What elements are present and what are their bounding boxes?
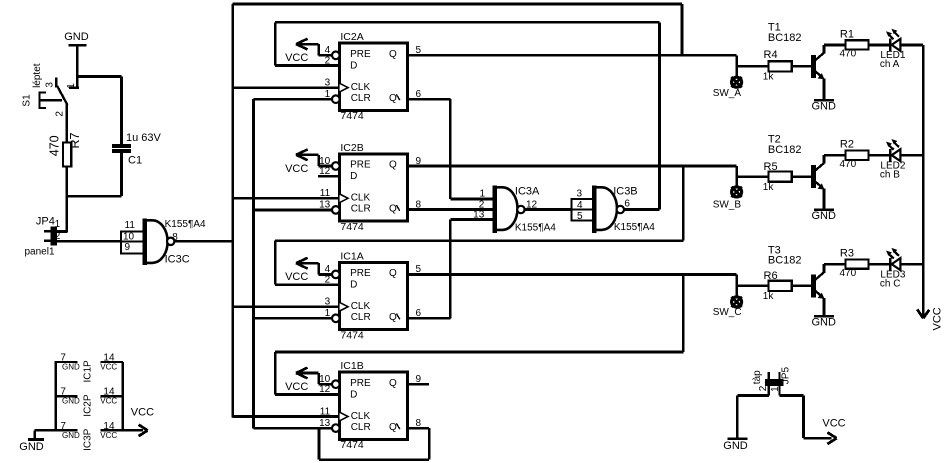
svg-text:1u 63V: 1u 63V <box>126 132 162 144</box>
power VCC arrow for IC1B <box>285 368 332 393</box>
svg-text:PRE: PRE <box>350 268 371 279</box>
svg-text:VCC: VCC <box>285 271 308 283</box>
svg-text:3: 3 <box>577 188 583 199</box>
svg-text:GND: GND <box>812 100 837 112</box>
svg-text:K155¶A4: K155¶A4 <box>515 222 556 233</box>
wire <box>681 4 684 55</box>
capacitor C1 <box>112 132 161 166</box>
wire IC2A CLR <box>253 98 332 101</box>
wire IC2B D stub <box>318 175 340 178</box>
svg-text:D: D <box>350 389 357 400</box>
svg-text:IC3B: IC3B <box>613 185 637 197</box>
wire T3 base drive from flip-flop Q <box>737 274 769 297</box>
connector JP4 <box>25 216 61 258</box>
wire <box>77 75 121 78</box>
wire <box>76 45 79 87</box>
svg-text:K155¶A4: K155¶A4 <box>614 222 655 233</box>
nand gate IC3C body <box>143 219 206 266</box>
transistor T3 BC182 <box>768 244 825 298</box>
svg-text:GND: GND <box>723 440 748 452</box>
svg-text:VCC: VCC <box>285 163 308 175</box>
flip-flop IC2B <box>332 142 408 233</box>
svg-text:470: 470 <box>840 159 857 170</box>
wire T2 base drive from flip-flop Q <box>737 166 769 187</box>
power pins IC2P pin 7 GND <box>55 387 80 406</box>
svg-text:VCC: VCC <box>100 362 117 371</box>
wire IC3A output to IC3B <box>525 208 572 211</box>
wire IC1B CLK <box>233 415 340 418</box>
power VCC arrow at JP5 <box>822 417 845 444</box>
svg-text:VCC: VCC <box>100 397 117 406</box>
svg-text:1: 1 <box>55 219 61 230</box>
svg-text:R1: R1 <box>840 28 854 40</box>
svg-text:IC3P: IC3P <box>82 428 93 451</box>
resistor R4 1k base resistor <box>763 49 792 83</box>
svg-text:PRE: PRE <box>350 160 371 171</box>
svg-text:Q: Q <box>389 160 397 171</box>
svg-text:BC182: BC182 <box>768 255 802 267</box>
svg-text:13: 13 <box>473 210 485 221</box>
resistor R7 <box>47 132 82 166</box>
ground symbol GND (top left) <box>64 31 89 45</box>
svg-text:10: 10 <box>123 231 135 242</box>
test point SW_C <box>713 297 742 318</box>
wire <box>823 78 826 100</box>
svg-text:JP4: JP4 <box>36 216 55 228</box>
wire IC1A CLK <box>233 305 340 308</box>
wire IC1A Q output <box>408 274 737 352</box>
svg-text:BC182: BC182 <box>768 32 802 44</box>
power pins IC1P pin 14 VCC <box>100 353 123 372</box>
svg-text:léptet: léptet <box>32 63 43 88</box>
svg-text:K155¶A4: K155¶A4 <box>165 219 206 230</box>
wire IC2A Q output <box>408 54 737 57</box>
power VCC arrow for IC2B <box>285 149 332 174</box>
svg-text:IC1B: IC1B <box>340 360 363 372</box>
power pins IC3P pin 14 VCC <box>100 421 123 440</box>
power VCC arrow for IC2A <box>285 39 332 64</box>
svg-text:CLK: CLK <box>351 411 371 422</box>
svg-text:VCC: VCC <box>932 307 944 330</box>
svg-text:GND: GND <box>19 441 44 453</box>
flip-flop IC1B <box>332 360 408 451</box>
svg-text:ch C: ch C <box>880 278 901 289</box>
svg-text:IC2P: IC2P <box>82 394 93 417</box>
ground symbol GND at T3 emitter <box>812 316 837 328</box>
svg-text:7474: 7474 <box>340 221 364 233</box>
svg-text:VCC: VCC <box>822 417 845 429</box>
svg-text:1: 1 <box>66 83 77 89</box>
power VCC rail right side <box>917 45 943 331</box>
wire IC1A D from IC2B Q <box>275 241 683 285</box>
wire <box>792 284 812 287</box>
power pins IC2P pin 14 VCC <box>100 387 123 406</box>
wire <box>900 263 923 266</box>
svg-text:VCC: VCC <box>285 381 308 393</box>
nand gate IC3A body <box>493 185 556 233</box>
svg-text:S1: S1 <box>21 94 32 107</box>
wire IC2A D feedback from IC3B <box>275 22 659 209</box>
svg-text:R4: R4 <box>764 49 778 61</box>
wire <box>67 195 122 198</box>
svg-text:IC1P: IC1P <box>82 360 93 383</box>
svg-text:Q: Q <box>389 93 397 104</box>
LED LED1 channel A <box>880 29 906 70</box>
wire IC2B CLK <box>233 197 340 200</box>
wire <box>869 44 890 47</box>
wire <box>824 263 846 266</box>
power VCC arrow for IC1A <box>285 258 332 283</box>
svg-text:VCC: VCC <box>100 431 117 440</box>
svg-text:GND: GND <box>64 31 89 43</box>
test point SW_B <box>713 187 742 211</box>
ground symbol GND at T2 emitter <box>812 210 837 222</box>
svg-text:CLR: CLR <box>351 93 371 104</box>
switch S1 pin 1 contact <box>66 83 79 89</box>
svg-text:2: 2 <box>758 385 769 391</box>
svg-text:IC2A: IC2A <box>340 31 363 43</box>
svg-text:PRE: PRE <box>350 378 371 389</box>
wire IC1B Q stub <box>408 383 430 386</box>
wire <box>65 167 68 233</box>
resistor R3 470 collector resistor <box>840 248 869 279</box>
svg-text:Q: Q <box>389 312 397 323</box>
nand gate IC3B body <box>592 185 655 233</box>
wire <box>824 44 846 47</box>
svg-text:ch A: ch A <box>880 59 900 70</box>
svg-text:IC3C: IC3C <box>165 253 190 265</box>
svg-text:R2: R2 <box>840 139 854 151</box>
svg-text:PRE: PRE <box>350 49 371 60</box>
svg-text:GND: GND <box>812 317 837 329</box>
wire IC1A CLR <box>253 317 332 320</box>
svg-text:SW_C: SW_C <box>713 307 742 318</box>
svg-text:1k: 1k <box>763 291 775 302</box>
wire <box>900 154 923 157</box>
resistor R1 470 collector resistor <box>840 28 869 59</box>
wire <box>823 189 826 210</box>
svg-text:GND: GND <box>62 362 80 371</box>
svg-text:GND: GND <box>62 397 80 406</box>
wire clear vertical bus <box>252 99 255 428</box>
wire <box>824 154 846 157</box>
wire IC1A Q-bar to IC3A pin 13 <box>408 219 493 318</box>
svg-text:CLR: CLR <box>351 422 371 433</box>
svg-text:1k: 1k <box>763 72 775 83</box>
svg-text:R3: R3 <box>840 248 854 260</box>
svg-text:470: 470 <box>840 49 857 60</box>
wire <box>33 430 35 438</box>
wire IC3C output <box>174 240 232 243</box>
svg-text:Q: Q <box>389 422 397 433</box>
svg-text:IC1A: IC1A <box>340 250 363 262</box>
LED LED2 channel B <box>880 139 906 180</box>
wire IC3A pin 1 input <box>450 198 493 201</box>
svg-text:ch B: ch B <box>880 169 900 180</box>
wire IC2B CLR <box>253 209 332 212</box>
svg-text:D: D <box>350 61 357 72</box>
wire <box>900 44 923 47</box>
wire IC2B Q-bar to IC3A pin 2 <box>408 208 493 211</box>
switch S1 blade <box>57 86 67 105</box>
svg-text:JP5: JP5 <box>781 367 792 385</box>
svg-text:1k: 1k <box>763 182 775 193</box>
wire IC2A CLK <box>233 86 340 89</box>
svg-text:SW_B: SW_B <box>713 199 742 210</box>
wire T1 base drive from flip-flop Q <box>737 55 769 77</box>
svg-text:3: 3 <box>44 82 55 88</box>
wire <box>823 298 826 316</box>
svg-text:BC182: BC182 <box>768 144 802 156</box>
svg-text:CLR: CLR <box>351 204 371 215</box>
svg-text:7474: 7474 <box>340 439 364 451</box>
svg-text:7474: 7474 <box>340 329 364 341</box>
wire IC2A Q-bar to IC3A pin 1 <box>408 99 451 199</box>
switch S1 pin 3 contact <box>44 77 56 87</box>
svg-text:GND: GND <box>812 210 837 222</box>
wire <box>737 394 769 397</box>
svg-text:5: 5 <box>577 211 583 222</box>
ground symbol GND at T1 emitter <box>812 100 837 112</box>
flip-flop IC1A <box>332 250 408 341</box>
svg-text:tàp: tàp <box>752 370 763 384</box>
svg-text:D: D <box>350 171 357 182</box>
svg-text:Q: Q <box>389 204 397 215</box>
svg-text:6: 6 <box>624 199 630 210</box>
power pins IC3P pin 7 GND <box>55 421 80 440</box>
svg-text:C1: C1 <box>128 154 142 166</box>
svg-text:panel1: panel1 <box>25 247 55 258</box>
svg-text:IC2B: IC2B <box>340 142 363 154</box>
svg-text:VCC: VCC <box>131 407 154 419</box>
nand gate IC3C input box pins 10 9 <box>121 220 143 255</box>
svg-text:D: D <box>350 280 357 291</box>
wire <box>57 230 67 233</box>
svg-text:11: 11 <box>125 220 136 231</box>
wire <box>803 437 831 440</box>
flip-flop IC2A <box>332 31 408 122</box>
svg-text:470: 470 <box>47 135 61 156</box>
wire IC1B CLR <box>253 427 332 430</box>
svg-text:7474: 7474 <box>340 110 364 122</box>
wire <box>780 394 804 397</box>
wire clock vertical bus <box>231 4 234 418</box>
wire vcc bus <box>122 362 124 430</box>
wire <box>792 175 812 178</box>
resistor R6 1k base resistor <box>763 270 792 302</box>
svg-text:R7: R7 <box>68 132 82 148</box>
wire IC1B Q-bar to CLR loop <box>319 428 429 460</box>
svg-text:R5: R5 <box>764 161 778 173</box>
wire IC1B D from IC1A Q <box>275 352 683 394</box>
wire IC2B Q output <box>408 166 737 241</box>
test point SW_A <box>713 77 742 99</box>
resistor R2 470 collector resistor <box>840 139 869 170</box>
wire <box>65 104 68 142</box>
svg-text:2: 2 <box>54 111 65 117</box>
switch S1 pole actuator <box>38 92 62 109</box>
svg-text:R6: R6 <box>764 270 778 282</box>
wire IC3B output to IC2A D loop <box>624 208 660 211</box>
wire <box>869 263 890 266</box>
ground symbol GND at JP5 <box>723 439 748 452</box>
nand gate IC3B input box pins 4 5 <box>572 188 593 222</box>
svg-text:IC3A: IC3A <box>515 185 540 197</box>
svg-text:CLK: CLK <box>351 82 371 93</box>
transistor T1 BC182 <box>768 22 825 80</box>
wire node panel clock <box>57 240 122 243</box>
wire ground bus <box>55 362 57 430</box>
wire top feedback <box>233 3 682 6</box>
svg-text:CLR: CLR <box>351 312 371 323</box>
wire <box>35 429 55 431</box>
svg-text:GND: GND <box>62 431 80 440</box>
svg-text:CLK: CLK <box>351 193 371 204</box>
svg-text:Q: Q <box>389 49 397 60</box>
wire <box>736 395 739 437</box>
svg-text:SW_A: SW_A <box>713 88 742 99</box>
resistor R5 1k base resistor <box>763 161 792 193</box>
wire <box>869 154 890 157</box>
ground symbol GND power block <box>19 440 44 454</box>
svg-text:470: 470 <box>840 268 857 279</box>
wire <box>802 395 805 438</box>
svg-text:9: 9 <box>125 242 131 253</box>
wire <box>792 65 812 68</box>
svg-text:VCC: VCC <box>285 52 308 64</box>
power VCC arrow power block <box>100 407 154 436</box>
wire <box>120 153 123 197</box>
svg-text:Q: Q <box>389 268 397 279</box>
LED LED3 channel C <box>880 248 906 289</box>
svg-text:CLK: CLK <box>351 301 371 312</box>
power pins IC1P pin 7 GND <box>55 353 80 372</box>
svg-text:Q: Q <box>389 378 397 389</box>
connector JP5 <box>752 367 792 396</box>
wire <box>120 76 123 145</box>
transistor T2 BC182 <box>768 133 825 189</box>
svg-text:4: 4 <box>577 200 583 211</box>
svg-text:1: 1 <box>770 386 781 392</box>
